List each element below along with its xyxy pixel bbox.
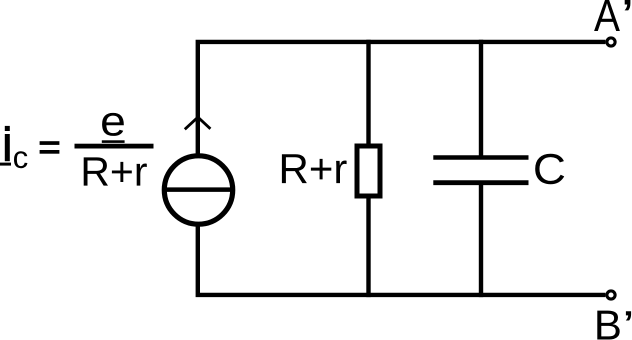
formula: subscript c <box>14 151 27 168</box>
terminal B' circle <box>607 291 615 299</box>
label A' <box>594 0 620 31</box>
formula: underline under e <box>102 140 125 143</box>
formula: equals sign <box>40 141 60 145</box>
wire: left branch + top wire to terminal A' <box>198 42 606 154</box>
formula: numerator e <box>102 113 124 136</box>
formula: fraction bar <box>75 144 154 149</box>
label R+r (resistor value) <box>282 154 347 183</box>
label B' <box>597 311 619 340</box>
wire: left branch + bottom wire to terminal B' <box>198 227 606 295</box>
label C (capacitor value) <box>535 154 564 184</box>
current source I1 circle <box>164 156 232 224</box>
resistor R+r body <box>357 146 380 196</box>
current source I1 diameter bar <box>163 187 235 192</box>
capacitor C bottom plate <box>433 180 528 185</box>
formula: denominator R+r <box>84 157 147 185</box>
wire: resistor branch upper segment <box>366 40 370 150</box>
capacitor C top plate <box>433 155 528 160</box>
wire: resistor branch lower segment <box>366 192 370 297</box>
formula: underline under i <box>0 163 11 166</box>
formula: i (stem and dot) <box>5 126 10 131</box>
wire: capacitor branch lower segment <box>479 183 483 297</box>
current direction arrow <box>185 117 211 129</box>
terminal A' circle <box>607 38 615 46</box>
wire: capacitor branch upper segment <box>479 40 483 157</box>
